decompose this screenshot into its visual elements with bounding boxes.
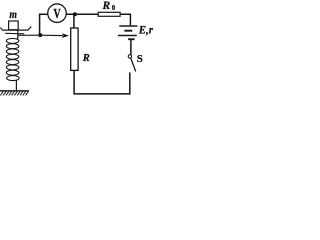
svg-text:R: R (102, 0, 111, 12)
svg-text:0: 0 (112, 4, 116, 12)
svg-text:E,r: E,r (138, 23, 153, 37)
svg-text:V: V (54, 6, 61, 21)
svg-text:R: R (82, 53, 90, 64)
svg-text:m: m (9, 9, 17, 21)
svg-text:S: S (137, 53, 143, 65)
